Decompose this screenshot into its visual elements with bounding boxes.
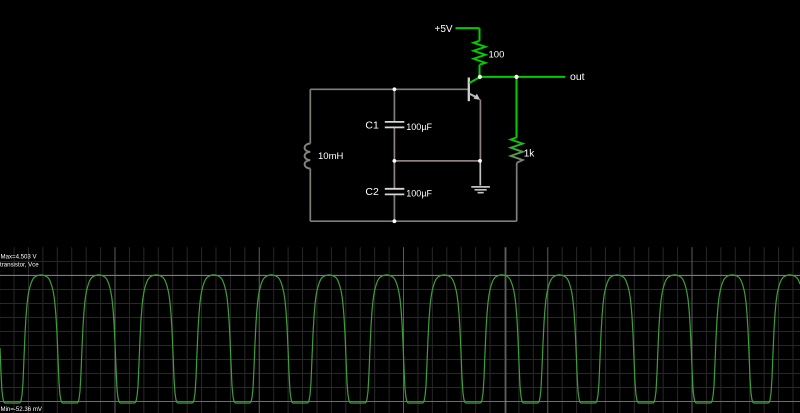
- svg-text:1k: 1k: [524, 148, 536, 159]
- svg-text:+5V: +5V: [435, 24, 453, 35]
- svg-text:transistor, Vce: transistor, Vce: [0, 261, 39, 268]
- svg-text:100: 100: [489, 49, 505, 60]
- svg-text:10mH: 10mH: [318, 151, 343, 162]
- svg-text:C1: C1: [365, 119, 379, 131]
- svg-text:Min=-52.36 mV: Min=-52.36 mV: [1, 406, 43, 413]
- svg-text:out: out: [570, 71, 585, 83]
- svg-text:100µF: 100µF: [406, 122, 432, 132]
- svg-text:Max=4.503 V: Max=4.503 V: [1, 254, 38, 261]
- svg-text:C2: C2: [365, 186, 379, 198]
- svg-text:100µF: 100µF: [406, 189, 432, 199]
